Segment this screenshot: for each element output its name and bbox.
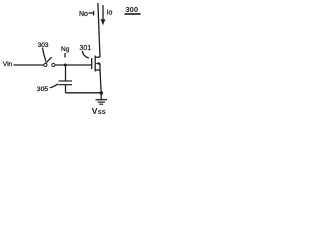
svg-text:305: 305	[37, 86, 49, 93]
svg-text:Io: Io	[107, 10, 113, 17]
svg-text:300: 300	[126, 5, 139, 14]
svg-text:ss: ss	[98, 109, 106, 116]
svg-text:Ng: Ng	[61, 46, 70, 53]
svg-text:301: 301	[80, 45, 92, 52]
svg-text:Vin: Vin	[3, 61, 13, 68]
svg-text:No: No	[79, 11, 88, 18]
svg-text:303: 303	[38, 42, 49, 49]
